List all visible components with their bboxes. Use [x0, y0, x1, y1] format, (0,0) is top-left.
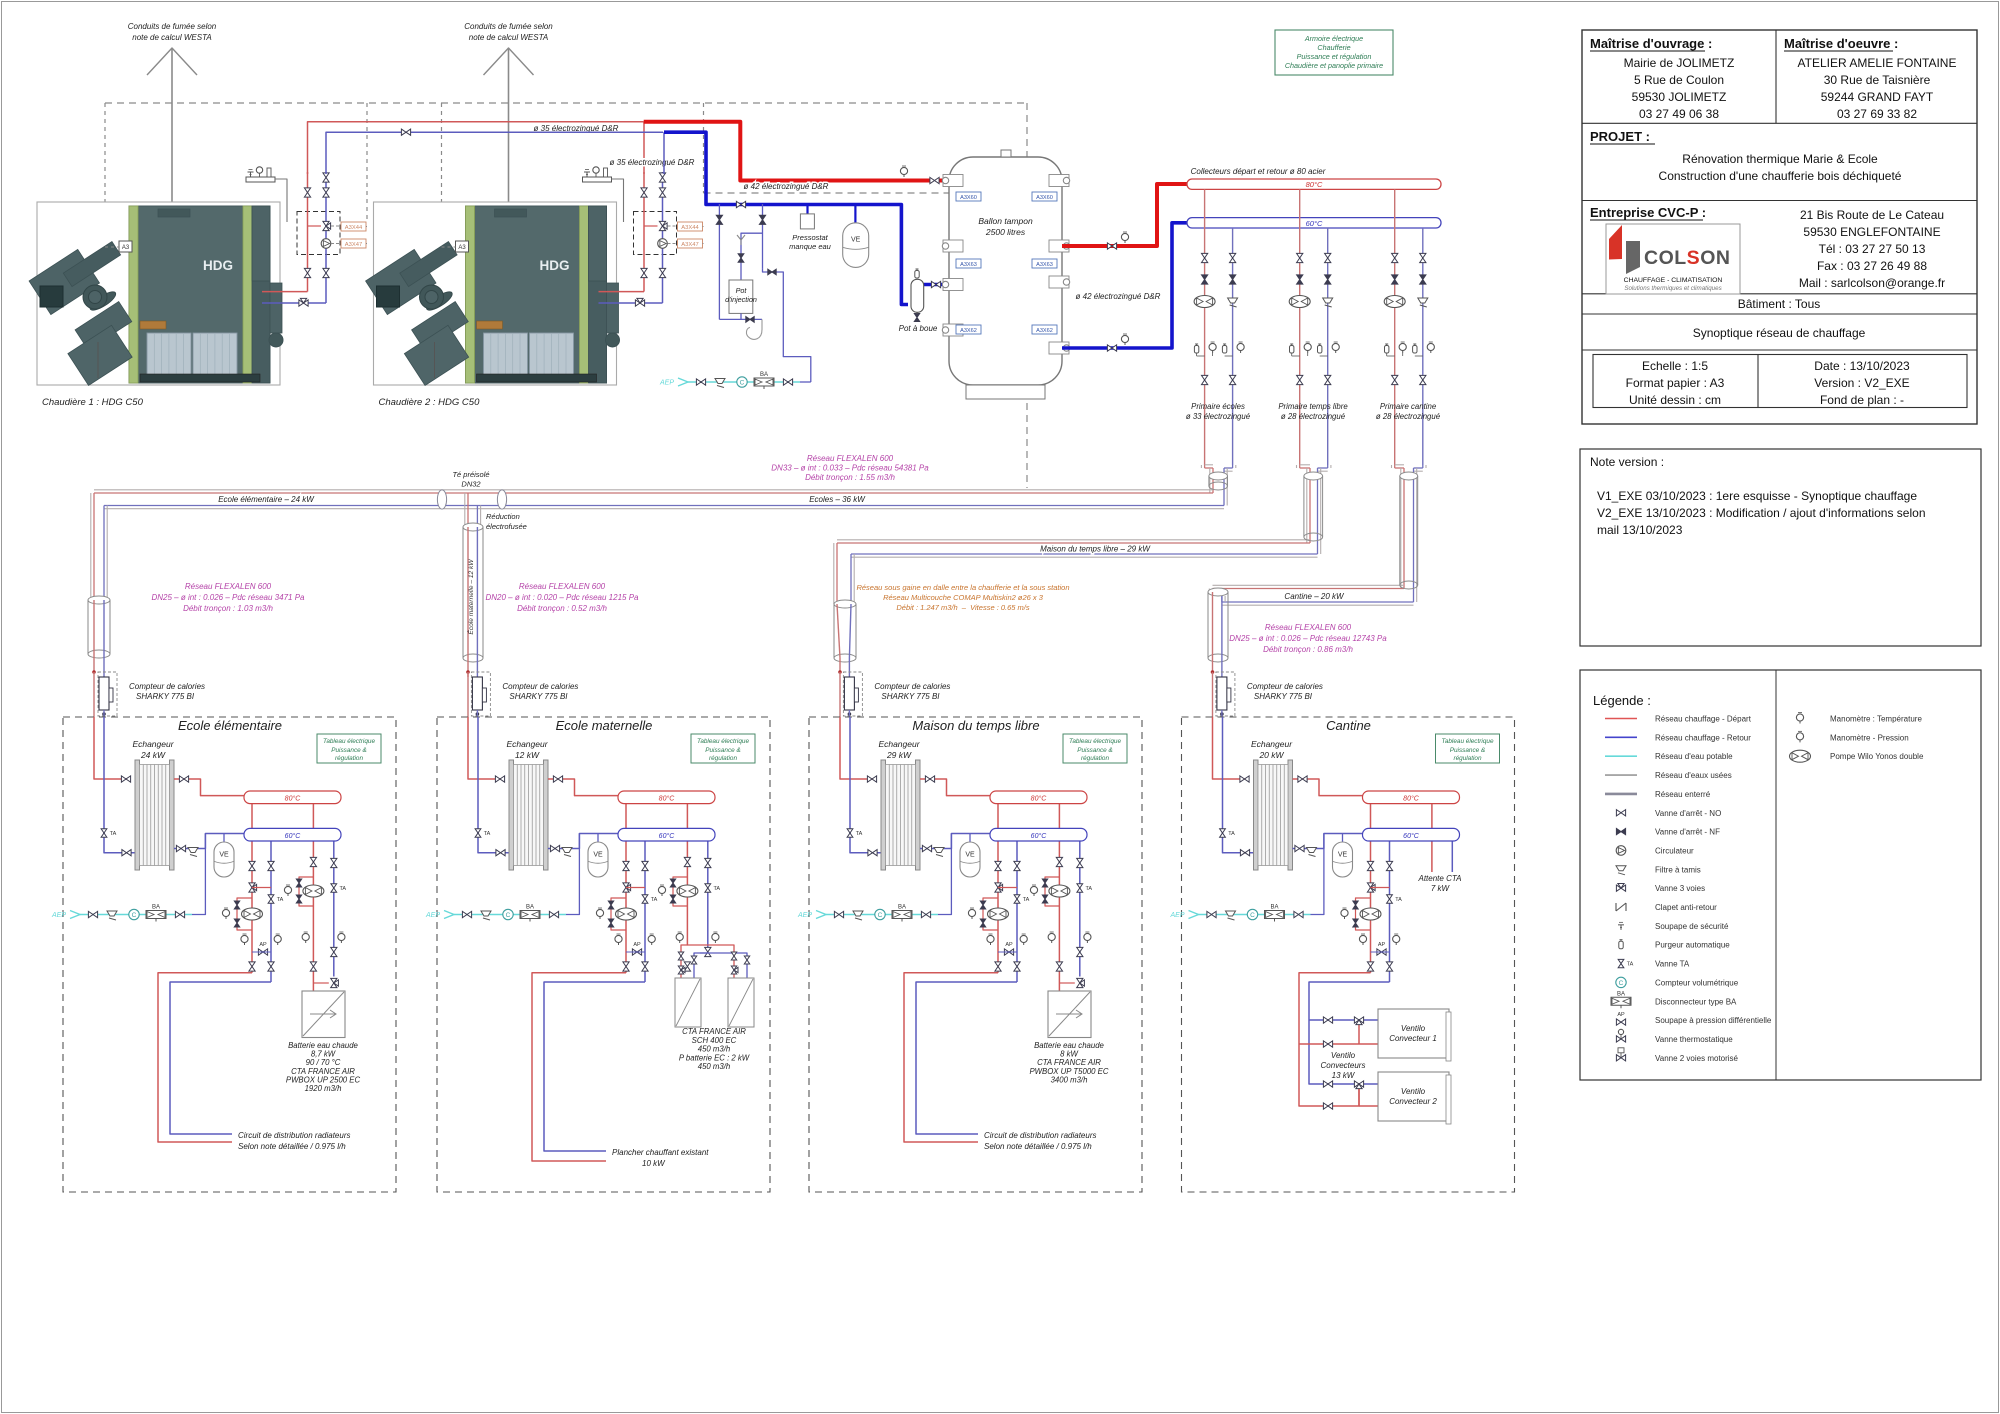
substation expansion vessel [223, 834, 225, 843]
boiler2 return branch riser [663, 132, 665, 174]
svg-text:Version : V2_EXE: Version : V2_EXE [1814, 376, 1909, 390]
tank ports [943, 175, 963, 187]
note version box [1580, 449, 1981, 646]
dashed link from labels [366, 226, 367, 228]
ventilo convecteur 1 box [1378, 1009, 1449, 1058]
svg-text:ø 28 électrozingué: ø 28 électrozingué [1281, 412, 1346, 421]
boiler grilles Chaudière 2 : HDG C50 [484, 333, 528, 380]
svg-text:TA: TA [1627, 962, 1634, 968]
CTA circuit components [310, 857, 316, 866]
svg-text:A3: A3 [458, 245, 466, 251]
injection circuit bottom link [719, 318, 762, 320]
radiator circuit to building [532, 973, 626, 1161]
svg-text:Ecoles – 36 kW: Ecoles – 36 kW [809, 495, 866, 504]
svg-text:Maison du temps libre – 29 kW: Maison du temps libre – 29 kW [1040, 545, 1151, 554]
svg-text:Puissance &: Puissance & [1450, 747, 1486, 754]
svg-text:Réseau FLEXALEN 600: Réseau FLEXALEN 600 [1265, 623, 1352, 632]
boiler A3 control box Chaudière 1 : HDG C50 [119, 241, 132, 252]
3-way valve A3X44 [323, 221, 329, 230]
legend soupape [1620, 925, 1622, 930]
svg-text:Convecteur 2: Convecteur 2 [1389, 1097, 1437, 1106]
collector retour 60C [1187, 218, 1441, 228]
primary filter [1228, 298, 1238, 303]
boiler enclosure Chaudière 1 : HDG C50 [37, 202, 280, 385]
exchanger secondary supply out [920, 779, 990, 796]
return to tank from pot a boue [924, 283, 949, 287]
boiler outlet pipes to panoply [262, 291, 308, 293]
svg-text:Echangeur: Echangeur [878, 739, 920, 749]
svg-text:AEP: AEP [659, 380, 674, 387]
boiler grilles Chaudière 1 : HDG C50 [147, 333, 191, 380]
svg-text:C: C [506, 912, 511, 919]
boiler A3 control box Chaudière 2 : HDG C50 [456, 241, 469, 252]
legend clapet [1616, 903, 1626, 911]
svg-text:CHAUFFAGE - CLIMATISATION: CHAUFFAGE - CLIMATISATION [1624, 277, 1723, 284]
radiator pump with bypass [983, 898, 998, 930]
svg-text:TA: TA [277, 897, 284, 903]
exchanger secondary return in [1293, 834, 1363, 849]
svg-text:TA: TA [1085, 886, 1092, 892]
heat exchanger [509, 760, 514, 870]
svg-text:Réseau sous gaine en dalle ent: Réseau sous gaine en dalle entre la chau… [856, 583, 1069, 592]
svg-text:Maison du temps libre: Maison du temps libre [912, 718, 1039, 733]
svg-text:A3X63: A3X63 [960, 262, 977, 268]
primary circuit return drop [1232, 228, 1234, 465]
svg-text:DN25 – ø int : 0.026 – Pdc rés: DN25 – ø int : 0.026 – Pdc réseau 3471 P… [152, 593, 306, 602]
title block maitrise cells [1775, 30, 1777, 123]
heat exchanger [881, 760, 886, 870]
main supply valve before tank [938, 179, 949, 183]
label A3X44 [678, 222, 703, 231]
svg-text:60°C: 60°C [1031, 832, 1048, 840]
svg-text:Vanne 3 voies: Vanne 3 voies [1655, 884, 1705, 893]
svg-text:Pressostat: Pressostat [792, 233, 828, 242]
primary pump [1194, 296, 1215, 308]
svg-text:59530 JOLIMETZ: 59530 JOLIMETZ [1632, 90, 1727, 104]
3-way valve A3X44 [659, 221, 665, 230]
secondary collector 80C [625, 804, 627, 973]
heat meter SHARKY 775 BI [98, 672, 117, 716]
svg-text:SHARKY 775 BI: SHARKY 775 BI [881, 692, 940, 701]
pot injection feed with strainer [741, 233, 763, 280]
svg-text:TA: TA [1023, 897, 1030, 903]
svg-text:Note version :: Note version : [1590, 455, 1664, 469]
injection circuit drop B [762, 204, 764, 269]
boiler enclosure Chaudière 2 : HDG C50 [374, 202, 617, 385]
substation supply riser [840, 717, 877, 779]
boiler body Chaudière 2 : HDG C50 [466, 206, 607, 383]
pot a boue [911, 279, 924, 312]
svg-text:HDG: HDG [203, 258, 233, 273]
primary circuit supply drop [1204, 189, 1206, 465]
boiler supply riser [307, 172, 309, 292]
svg-text:ø 42 électrozingué D&R: ø 42 électrozingué D&R [1076, 292, 1161, 301]
tableau electrique box [691, 734, 755, 763]
svg-text:Ecole élémentaire – 24 kW: Ecole élémentaire – 24 kW [218, 495, 315, 504]
radiator circuit valves [995, 861, 1001, 870]
svg-text:Mail : sarlcolson@orange.fr: Mail : sarlcolson@orange.fr [1799, 276, 1945, 290]
network cantine pair [1213, 584, 1405, 586]
armoire electrique chaufferie box [1275, 30, 1393, 75]
svg-text:Réseau chauffage - Retour: Réseau chauffage - Retour [1655, 733, 1751, 742]
CTA mixing valve [331, 978, 337, 987]
manometer on supply [900, 167, 907, 174]
pump A3X47 [321, 239, 331, 249]
svg-text:20 kW: 20 kW [1258, 750, 1284, 760]
primary circuit return drop [1327, 228, 1329, 465]
svg-text:Cantine: Cantine [1326, 718, 1371, 733]
boiler2 supply branch riser [643, 122, 645, 174]
svg-text:Réduction: Réduction [486, 512, 520, 521]
svg-text:AEP: AEP [51, 912, 66, 919]
svg-text:TA: TA [1395, 897, 1402, 903]
boiler supply riser [643, 172, 645, 292]
svg-text:03 27 69 33 82: 03 27 69 33 82 [1837, 107, 1917, 121]
injection circuit drop A [718, 204, 720, 319]
radiator circuit to building [158, 973, 252, 1142]
svg-text:Convecteur 1: Convecteur 1 [1389, 1034, 1437, 1043]
secondary collector 80C [1370, 804, 1372, 973]
svg-text:Format papier : A3: Format papier : A3 [1626, 376, 1725, 390]
svg-text:Rénovation thermique Marie & E: Rénovation thermique Marie & Ecole [1682, 152, 1878, 166]
svg-text:VE: VE [593, 852, 603, 859]
svg-text:AEP: AEP [1169, 912, 1184, 919]
legend vanne 3 voies [1616, 885, 1625, 891]
svg-text:Légende :: Légende : [1593, 693, 1651, 708]
svg-text:note de calcul WESTA: note de calcul WESTA [132, 33, 211, 42]
boiler fuel feeder Chaudière 2 : HDG C50 [360, 231, 508, 385]
svg-text:Filtre à tamis: Filtre à tamis [1655, 865, 1701, 874]
svg-text:Circuit de distribution radiat: Circuit de distribution radiateurs [984, 1131, 1097, 1140]
substation return riser [1223, 717, 1254, 853]
svg-text:Bâtiment : Tous: Bâtiment : Tous [1738, 297, 1821, 311]
svg-text:Selon note détaillée / 0.975 l: Selon note détaillée / 0.975 l/h [984, 1142, 1092, 1151]
network ecoles return [104, 508, 1224, 510]
heat exchanger [1254, 760, 1259, 870]
svg-text:Chaudière et panoplie primaire: Chaudière et panoplie primaire [1285, 61, 1383, 70]
expansion vessel VE [854, 204, 856, 223]
svg-text:Purgeur automatique: Purgeur automatique [1655, 941, 1730, 950]
flue duct chimney [171, 48, 173, 208]
svg-text:60°C: 60°C [1306, 219, 1323, 228]
svg-text:Ventilo: Ventilo [1401, 1087, 1426, 1096]
svg-text:Chaudière 2 : HDG C50: Chaudière 2 : HDG C50 [379, 397, 481, 408]
svg-text:A3X62: A3X62 [960, 328, 977, 334]
svg-text:60°C: 60°C [1403, 832, 1420, 840]
valves on risers [323, 173, 329, 182]
svg-text:Convecteurs: Convecteurs [1321, 1061, 1366, 1070]
ventilo convecteur 2 box [1378, 1072, 1449, 1121]
svg-text:7 kW: 7 kW [1431, 884, 1451, 893]
svg-text:AP: AP [1378, 942, 1386, 948]
svg-text:P batterie EC : 2 kW: P batterie EC : 2 kW [679, 1053, 750, 1062]
label A3X47 [678, 239, 703, 248]
collector depart 80C [1187, 179, 1441, 189]
svg-text:HDG: HDG [540, 258, 570, 273]
svg-text:Té préisolé: Té préisolé [452, 470, 489, 479]
svg-text:Vanne thermostatique: Vanne thermostatique [1655, 1035, 1733, 1044]
svg-text:C: C [132, 912, 137, 919]
valves on risers [659, 173, 665, 182]
CTA circuit components [1056, 857, 1062, 866]
tank sensor labels [956, 192, 981, 201]
svg-text:Tableau électrique: Tableau électrique [697, 738, 749, 745]
svg-text:Pot à boue: Pot à boue [899, 324, 938, 333]
svg-text:Cantine – 20 kW: Cantine – 20 kW [1284, 592, 1345, 601]
svg-text:ø 33 électrozingué: ø 33 électrozingué [1186, 412, 1251, 421]
svg-text:Echangeur: Echangeur [506, 739, 548, 749]
svg-text:Débit : 1.247 m3/h – Vitesse: Débit : 1.247 m3/h – Vitesse : 0.65 m/s [896, 603, 1030, 612]
legend vanne thermostatique [1616, 1036, 1625, 1042]
pot d injection [729, 280, 753, 313]
svg-text:Conduits de fumée selon: Conduits de fumée selon [128, 22, 217, 31]
svg-text:Soupape à pression différentie: Soupape à pression différentielle [1655, 1016, 1772, 1025]
heat meter SHARKY 775 BI [471, 672, 490, 716]
insulated pipe cylinders [1209, 476, 1228, 486]
svg-text:A3X44: A3X44 [345, 225, 363, 231]
network drop ecole maternelle [464, 493, 466, 527]
svg-text:VE: VE [1338, 852, 1348, 859]
legend disconnecteur BA [1611, 997, 1631, 1005]
svg-text:Réseau chauffage - Départ: Réseau chauffage - Départ [1655, 715, 1752, 724]
svg-text:Synoptique réseau de chauffage: Synoptique réseau de chauffage [1693, 326, 1866, 340]
svg-text:Compteur volumétrique: Compteur volumétrique [1655, 978, 1739, 987]
legend vanne 2 voies motorise [1616, 1055, 1625, 1061]
legend manometre pression [1796, 733, 1803, 740]
svg-text:Vanne TA: Vanne TA [1655, 960, 1690, 969]
substation return riser [478, 717, 509, 853]
svg-text:Soupape de sécurité: Soupape de sécurité [1655, 922, 1729, 931]
legend vanne TA [1618, 959, 1624, 967]
tableau electrique box [317, 734, 381, 763]
svg-text:Solutions thermiques et climat: Solutions thermiques et climatiques [1624, 285, 1721, 292]
svg-text:SHARKY 775 BI: SHARKY 775 BI [1254, 692, 1313, 701]
drop elbows to pre-insulated pipes [1200, 465, 1202, 468]
svg-text:A3X47: A3X47 [345, 242, 362, 248]
AEP potable water line [70, 911, 80, 919]
svg-text:21 Bis Route de Le Cateau: 21 Bis Route de Le Cateau [1800, 208, 1944, 222]
CTA circuit components [684, 857, 690, 866]
svg-text:SCH 400 EC: SCH 400 EC [692, 1036, 737, 1045]
svg-text:d'injection: d'injection [725, 295, 757, 304]
svg-text:TA: TA [484, 831, 491, 837]
svg-text:Echelle : 1:5: Echelle : 1:5 [1642, 359, 1708, 373]
svg-text:ø 28 électrozingué: ø 28 électrozingué [1376, 412, 1441, 421]
primary filter [1418, 298, 1428, 303]
svg-text:Armoire électrique: Armoire électrique [1304, 34, 1363, 43]
svg-text:DN25 – ø int : 0.026 – Pdc rés: DN25 – ø int : 0.026 – Pdc réseau 12743 … [1229, 634, 1387, 643]
boiler return riser [325, 172, 327, 303]
svg-text:12 kW: 12 kW [515, 750, 540, 760]
svg-text:24 kW: 24 kW [140, 750, 166, 760]
svg-text:Tableau électrique: Tableau électrique [1442, 738, 1494, 745]
svg-text:VE: VE [965, 852, 975, 859]
svg-text:Tél : 03 27 27 50 13: Tél : 03 27 27 50 13 [1819, 242, 1926, 256]
svg-text:450 m3/h: 450 m3/h [698, 1045, 731, 1054]
radiator circuit valves [623, 861, 629, 870]
exchanger secondary return in [920, 834, 990, 849]
svg-text:École maternelle – 12 kW: École maternelle – 12 kW [466, 559, 475, 635]
svg-text:Primaire cantine: Primaire cantine [1380, 402, 1437, 411]
boiler return riser [662, 172, 664, 303]
svg-text:Pot: Pot [736, 286, 748, 295]
legend soupape pression differentielle [1616, 1019, 1625, 1025]
svg-text:Entreprise CVC-P :: Entreprise CVC-P : [1590, 205, 1706, 220]
svg-text:A3X60: A3X60 [960, 195, 977, 201]
AEP potable water line [1189, 911, 1199, 919]
boiler outlet pipes to panoply [599, 291, 645, 293]
radiator circuit to building [904, 973, 998, 1142]
svg-text:Vanne d'arrêt - NF: Vanne d'arrêt - NF [1655, 828, 1720, 837]
boiler fuel feeder Chaudière 1 : HDG C50 [23, 231, 171, 385]
svg-text:Circulateur: Circulateur [1655, 846, 1694, 855]
svg-text:Selon note détaillée / 0.975 l: Selon note détaillée / 0.975 l/h [238, 1142, 346, 1151]
svg-text:Tableau électrique: Tableau électrique [1069, 738, 1121, 745]
svg-text:450 m3/h: 450 m3/h [698, 1062, 731, 1071]
exchanger secondary supply out [1293, 779, 1363, 796]
svg-text:AEP: AEP [797, 912, 812, 919]
svg-text:régulation: régulation [1453, 755, 1482, 762]
svg-text:Disconnecteur type BA: Disconnecteur type BA [1655, 997, 1737, 1006]
drain gooseneck [746, 319, 762, 339]
radiator return valves [1386, 861, 1392, 870]
legend compteur volumetrique [1616, 977, 1626, 987]
svg-text:manque eau: manque eau [789, 242, 832, 251]
heat meter SHARKY 775 BI [843, 672, 862, 716]
substation supply riser [1213, 717, 1250, 779]
svg-text:ø 35 électrozingué D&R: ø 35 électrozingué D&R [610, 158, 695, 167]
svg-text:Débit tronçon : 0.86 m3/h: Débit tronçon : 0.86 m3/h [1263, 645, 1353, 654]
svg-text:Réseau Multicouche COMAP Multi: Réseau Multicouche COMAP Multiskin2 ø26 … [883, 593, 1044, 602]
svg-text:C: C [1250, 912, 1255, 919]
svg-text:30 Rue de Taisnière: 30 Rue de Taisnière [1824, 73, 1931, 87]
svg-text:TA: TA [713, 886, 720, 892]
panoply primary pump circuit dashed box [297, 212, 340, 255]
svg-text:Construction d'une chaufferie: Construction d'une chaufferie bois déchi… [1659, 169, 1902, 183]
pressostat manque eau [806, 204, 808, 214]
svg-text:BA: BA [526, 905, 534, 911]
svg-text:29 kW: 29 kW [886, 750, 912, 760]
CTA air handler box [302, 991, 345, 1038]
svg-text:Ventilo: Ventilo [1331, 1051, 1356, 1060]
substation dashed box Maison du temps libre [809, 717, 1142, 1192]
svg-text:régulation: régulation [335, 755, 364, 762]
legend pompe double [1790, 750, 1811, 762]
S4 ventilo convecteurs circuit [1299, 973, 1371, 1106]
svg-text:Vanne d'arrêt - NO: Vanne d'arrêt - NO [1655, 809, 1721, 818]
svg-text:1920 m3/h: 1920 m3/h [305, 1084, 342, 1093]
exchanger secondary supply out [174, 779, 244, 796]
svg-text:TA: TA [339, 886, 346, 892]
svg-text:DN33 – ø int : 0.033 – Pdc rés: DN33 – ø int : 0.033 – Pdc réseau 54381 … [771, 464, 929, 473]
svg-text:ATELIER AMELIE FONTAINE: ATELIER AMELIE FONTAINE [1798, 56, 1957, 70]
pump A3X47 [658, 239, 668, 249]
network drop ecole elementaire [90, 493, 92, 600]
substation dashed box Cantine [1182, 717, 1515, 1192]
svg-text:DN32: DN32 [461, 480, 481, 489]
radiator return valves [642, 861, 648, 870]
svg-text:Compteur de calories: Compteur de calories [129, 682, 205, 691]
CTA mixing valve [1077, 978, 1083, 987]
riser in maternelle pipe [467, 527, 469, 677]
title block outer [1582, 30, 1977, 424]
title block projet cell [1582, 200, 1977, 202]
svg-text:Fond de plan : -: Fond de plan : - [1820, 393, 1904, 407]
radiator circuit valves [1367, 861, 1373, 870]
svg-text:V2_EXE 13/10/2023 : Modificati: V2_EXE 13/10/2023 : Modification / ajout… [1597, 506, 1926, 520]
COLSON logo [1606, 224, 1740, 294]
svg-text:PROJET :: PROJET : [1590, 129, 1650, 144]
svg-text:Manomètre : Température: Manomètre : Température [1830, 715, 1922, 724]
appoint line to AEP [763, 269, 811, 382]
svg-text:AP: AP [1617, 1012, 1625, 1018]
tableau electrique box [1063, 734, 1127, 763]
substation expansion vessel [969, 834, 971, 843]
svg-text:Vanne 2 voies motorisé: Vanne 2 voies motorisé [1655, 1054, 1739, 1063]
svg-text:mail 13/10/2023: mail 13/10/2023 [1597, 523, 1683, 537]
svg-text:10 kW: 10 kW [642, 1159, 666, 1168]
svg-text:Réseau FLEXALEN 600: Réseau FLEXALEN 600 [807, 454, 894, 463]
dashed link from labels [703, 226, 704, 228]
buffer tank ballon tampon 2500L [949, 157, 1062, 385]
svg-text:régulation: régulation [709, 755, 738, 762]
boiler safety group Chaudière 2 : HDG C50 [583, 177, 612, 182]
radiator pump with bypass [611, 898, 626, 930]
svg-text:03 27 49 06 38: 03 27 49 06 38 [1639, 107, 1719, 121]
svg-text:Réseau FLEXALEN 600: Réseau FLEXALEN 600 [519, 582, 606, 591]
supply tank to collector [1062, 184, 1187, 246]
svg-text:Ecole élémentaire: Ecole élémentaire [178, 718, 282, 733]
svg-text:Circuit de distribution radiat: Circuit de distribution radiateurs [238, 1131, 351, 1140]
substation return riser [850, 717, 881, 853]
svg-text:Primaire temps libre: Primaire temps libre [1278, 402, 1348, 411]
boiler safety group Chaudière 1 : HDG C50 [246, 177, 275, 182]
svg-text:5 Rue de Coulon: 5 Rue de Coulon [1634, 73, 1724, 87]
legend manometre temperature [1796, 714, 1803, 721]
svg-text:Clapet anti-retour: Clapet anti-retour [1655, 903, 1717, 912]
svg-text:BA: BA [1270, 905, 1278, 911]
svg-text:A3: A3 [122, 245, 130, 251]
svg-text:TA: TA [110, 831, 117, 837]
svg-text:Manomètre - Pression: Manomètre - Pression [1830, 733, 1909, 742]
tee DN32 symbols [437, 490, 446, 509]
svg-text:BA: BA [1617, 991, 1625, 997]
network temps libre pair [837, 539, 1310, 541]
secondary collector 80C [997, 804, 999, 973]
legend line samples [1605, 718, 1637, 720]
primary pump [1384, 296, 1405, 308]
substation expansion vessel [1342, 834, 1344, 843]
CTA air handler box [1048, 991, 1091, 1038]
svg-text:électrofusée: électrofusée [486, 522, 527, 531]
svg-text:80°C: 80°C [1403, 795, 1420, 803]
return collector to tank [1062, 223, 1187, 348]
substation expansion vessel [597, 834, 599, 843]
legend box [1580, 670, 1981, 1080]
primary pump [1289, 296, 1310, 308]
svg-text:Compteur de calories: Compteur de calories [874, 682, 950, 691]
svg-text:Ventilo: Ventilo [1401, 1024, 1426, 1033]
svg-text:AP: AP [1005, 942, 1013, 948]
mixing 3-way valve at boiler return [635, 300, 644, 306]
svg-text:A3X44: A3X44 [681, 225, 699, 231]
svg-text:BA: BA [152, 905, 160, 911]
svg-text:SHARKY 775 BI: SHARKY 775 BI [509, 692, 568, 701]
primary filter [1323, 298, 1333, 303]
svg-text:VE: VE [851, 237, 861, 244]
title block batiment row [1582, 313, 1977, 315]
svg-text:note de calcul WESTA: note de calcul WESTA [469, 33, 548, 42]
